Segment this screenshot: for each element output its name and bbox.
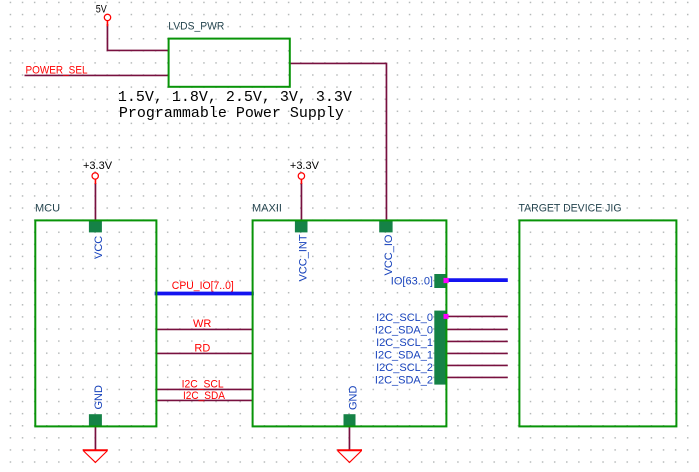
svg-text:MAXII: MAXII (252, 203, 282, 215)
svg-text:RD: RD (194, 343, 210, 355)
svg-text:I2C_SDA_2: I2C_SDA_2 (375, 375, 433, 387)
svg-text:GND: GND (93, 385, 105, 410)
svg-text:LVDS_PWR: LVDS_PWR (168, 20, 224, 32)
svg-text:Programmable Power Supply: Programmable Power Supply (119, 105, 344, 122)
svg-text:GND: GND (348, 386, 360, 411)
svg-text:IO[63..0]: IO[63..0] (391, 276, 433, 288)
svg-text:CPU_IO[7..0]: CPU_IO[7..0] (172, 280, 234, 292)
svg-text:VCC_INT: VCC_INT (298, 234, 310, 281)
svg-text:5V: 5V (96, 4, 108, 16)
svg-text:I2C_SCL_0: I2C_SCL_0 (376, 312, 433, 324)
svg-text:I2C_SDA: I2C_SDA (183, 390, 226, 402)
svg-text:VCC: VCC (93, 236, 105, 259)
svg-text:TARGET DEVICE JIG: TARGET DEVICE JIG (519, 203, 622, 215)
svg-text:I2C_SDA_0: I2C_SDA_0 (375, 325, 433, 337)
svg-text:MCU: MCU (35, 203, 60, 215)
svg-text:I2C_SDA_1: I2C_SDA_1 (375, 350, 433, 362)
svg-text:I2C_SCL_2: I2C_SCL_2 (376, 362, 433, 374)
svg-text:POWER_SEL: POWER_SEL (26, 65, 88, 77)
svg-text:+3.3V: +3.3V (83, 160, 113, 172)
svg-text:1.5V, 1.8V, 2.5V, 3V, 3.3V: 1.5V, 1.8V, 2.5V, 3V, 3.3V (118, 89, 352, 106)
svg-text:I2C_SCL_1: I2C_SCL_1 (376, 337, 433, 349)
svg-text:+3.3V: +3.3V (290, 160, 320, 172)
svg-text:VCC_IO: VCC_IO (383, 234, 395, 275)
svg-text:I2C_SCL: I2C_SCL (182, 378, 224, 390)
svg-text:WR: WR (193, 318, 211, 330)
